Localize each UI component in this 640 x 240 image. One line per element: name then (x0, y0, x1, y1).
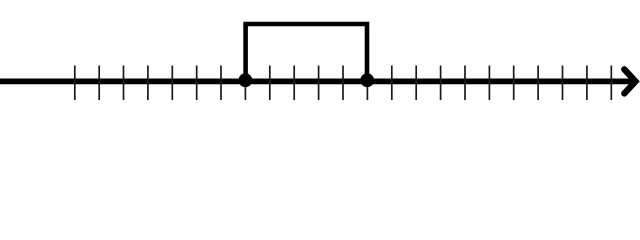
tick mark 6 (196, 66, 198, 101)
tick mark 8 (244, 66, 246, 101)
tick mark 19 (513, 66, 515, 101)
tick mark 7 (220, 66, 222, 101)
tick mark 20 (537, 66, 539, 101)
tick mark 18 (488, 66, 490, 101)
right endpoint dot (360, 73, 374, 87)
tick mark 23 (610, 66, 612, 101)
tick mark 2 (98, 66, 100, 101)
tick mark 1 (74, 66, 76, 101)
tick mark 17 (464, 66, 466, 101)
tick mark 13 (366, 66, 368, 101)
left endpoint dot (239, 73, 253, 87)
tick mark 21 (562, 66, 564, 101)
tick marks (75, 66, 612, 101)
tick mark 3 (123, 66, 125, 101)
tick mark 12 (342, 66, 344, 101)
tick mark 16 (440, 66, 442, 101)
tick mark 22 (586, 66, 588, 101)
arrowhead (624, 69, 635, 93)
tick mark 11 (318, 66, 320, 101)
tick mark 10 (293, 66, 295, 101)
tick mark 15 (415, 66, 417, 101)
tick mark 5 (171, 66, 173, 101)
tick mark 4 (147, 66, 149, 101)
interval bracket (246, 24, 367, 81)
tick mark 9 (269, 66, 271, 101)
number line axis (0, 79, 634, 85)
tick mark 14 (391, 66, 393, 101)
